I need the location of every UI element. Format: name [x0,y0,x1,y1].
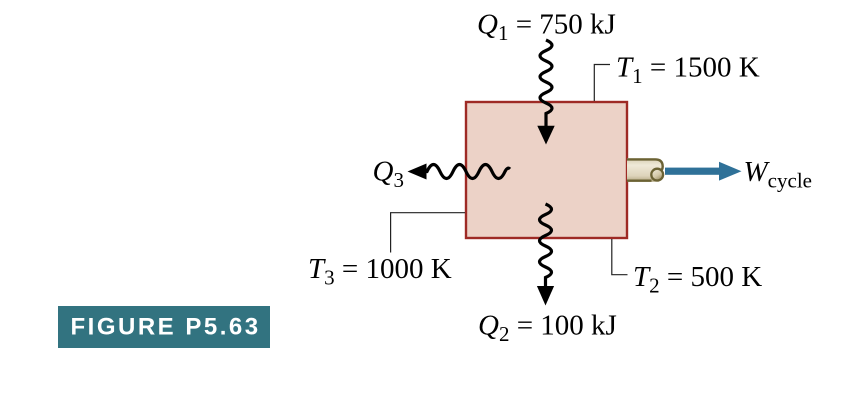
figure caption bar [58,306,270,348]
wire Q1 wavy arrow [540,40,552,128]
svg-text:T3 = 1000 K: T3 = 1000 K [308,253,452,290]
leader line T2 [612,239,628,275]
svg-text:Q3: Q3 [373,155,404,192]
svg-text:T1 = 1500 K: T1 = 1500 K [616,51,760,88]
system box (cycle) [466,102,627,238]
wire Q3 wavy arrow [422,165,510,179]
shaft (work output) [627,158,664,182]
svg-text:T2 = 500 K: T2 = 500 K [633,261,762,298]
wire Q2 wavy arrow [540,204,552,288]
svg-text:Wcycle: Wcycle [744,156,812,193]
arrow Wcycle (blue) [665,168,721,175]
leader line T3 [391,213,465,253]
svg-text:FIGURE P5.63: FIGURE P5.63 [71,314,261,341]
leader line T1 [594,65,610,102]
svg-text:Q1 = 750 kJ: Q1 = 750 kJ [477,8,616,45]
svg-text:Q2 = 100 kJ: Q2 = 100 kJ [478,310,617,347]
